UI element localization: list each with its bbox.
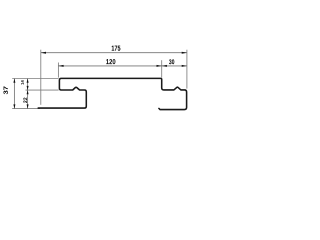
arrow 37 top bbox=[13, 79, 15, 83]
arrow 14 top bbox=[27, 79, 29, 83]
dimension line 14 and 22 bbox=[27, 79, 29, 109]
dimension line 37 bbox=[13, 79, 15, 109]
extension line right of 175 dim bbox=[186, 50, 188, 89]
extension line bottom reference bbox=[12, 108, 40, 110]
label 175 bbox=[112, 46, 121, 51]
arrow 37 bottom bbox=[13, 104, 15, 108]
arrow 175 left bbox=[41, 52, 46, 54]
extension line mid reference bbox=[26, 89, 59, 91]
label 37 bbox=[4, 86, 8, 94]
arrow 22 bottom bbox=[27, 104, 29, 108]
arrow 22 top bbox=[27, 90, 29, 94]
label 120 bbox=[106, 59, 115, 64]
extension line at 120/30 boundary bbox=[161, 60, 163, 77]
arrow 120 right bbox=[157, 65, 162, 67]
arrow 30 right bbox=[182, 65, 187, 67]
extension line top reference bbox=[12, 78, 58, 80]
dimension line 120 and 30 bbox=[58, 65, 187, 67]
arrow 30 left bbox=[162, 65, 167, 67]
wire bbox=[0, 0, 195, 138]
label 14 bbox=[21, 80, 24, 84]
board profile outline bbox=[38, 78, 186, 109]
arrow 14 bottom bbox=[27, 86, 29, 90]
extension line left of 175 dim bbox=[40, 50, 42, 105]
label 22 bbox=[23, 98, 27, 103]
extension line left of 120 dim bbox=[57, 63, 59, 78]
label 30 bbox=[169, 59, 174, 64]
arrow 175 right bbox=[182, 52, 187, 54]
arrow 120 left bbox=[58, 65, 63, 67]
dimension line 175 bbox=[41, 52, 187, 54]
